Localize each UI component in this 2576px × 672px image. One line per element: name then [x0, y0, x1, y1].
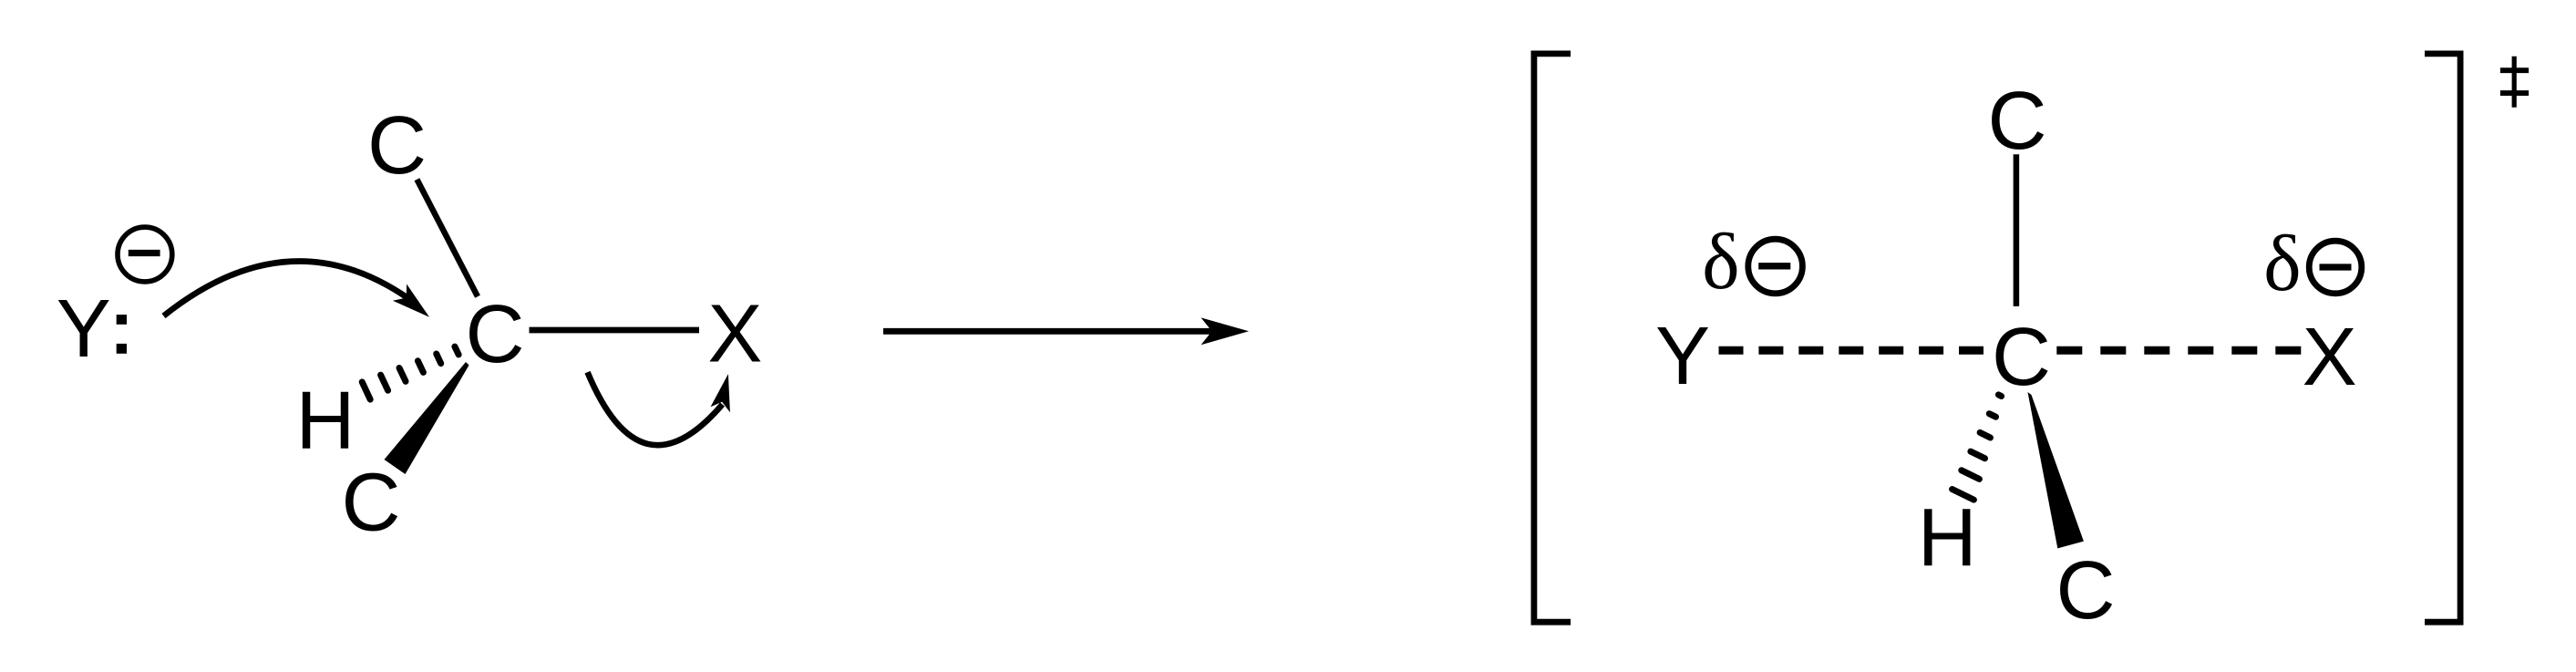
reaction arrowhead [1201, 317, 1250, 345]
svg-text:δ: δ [1702, 218, 1739, 306]
bold wedge bond C to lower C in TS [2028, 392, 2084, 548]
svg-text:C: C [2056, 545, 2116, 636]
minus sign in charge circle [129, 250, 160, 256]
hashed wedge bond C to H in TS [1953, 395, 2002, 500]
double dagger upper crossbar [2500, 67, 2529, 73]
svg-text:Y: Y [57, 284, 111, 375]
arrowhead of curved arrow Y to C [393, 284, 429, 317]
svg-text:Y: Y [1655, 311, 1710, 402]
double dagger lower crossbar [2500, 90, 2529, 96]
lone pair dot upper [117, 315, 127, 325]
bold wedge bond C to lower C [385, 362, 469, 474]
bond top C to central C [417, 180, 478, 297]
partial bond C to X (dashed) [2056, 346, 2301, 355]
svg-text:H: H [1918, 492, 1977, 584]
svg-text:δ: δ [2263, 220, 2301, 308]
hashed wedge bond C to H [362, 346, 459, 399]
minus sign in X-side circle [2320, 264, 2352, 270]
svg-text:H: H [296, 376, 355, 467]
svg-text:C: C [466, 289, 525, 380]
svg-text:C: C [1988, 76, 2047, 167]
arrowhead of curved arrow to X [711, 374, 730, 412]
svg-text:C: C [367, 100, 427, 191]
lone pair dot lower [117, 344, 127, 354]
partial bond Y to C (dashed) [1719, 346, 1984, 355]
minus sign in Y-side circle [1758, 263, 1790, 269]
bond top C to central C in TS [2014, 154, 2020, 306]
svg-text:C: C [1992, 312, 2051, 403]
negative charge circle on Y [118, 227, 172, 282]
double dagger vertical stroke [2512, 57, 2517, 108]
left bracket of transition state [1534, 54, 1571, 622]
svg-text:X: X [2303, 312, 2357, 403]
partial negative circle on X side [2309, 241, 2362, 294]
right bracket of transition state [2425, 54, 2460, 622]
partial negative circle on Y side [1748, 239, 1803, 294]
curved arrow C-X bond to X (leaving group departure) [588, 372, 723, 445]
reaction arrow shaft [883, 328, 1232, 335]
bond C to X [530, 327, 700, 334]
curved arrow Y to C (nucleophilic attack) [164, 261, 410, 315]
svg-text:C: C [342, 458, 401, 549]
svg-text:X: X [707, 288, 762, 379]
